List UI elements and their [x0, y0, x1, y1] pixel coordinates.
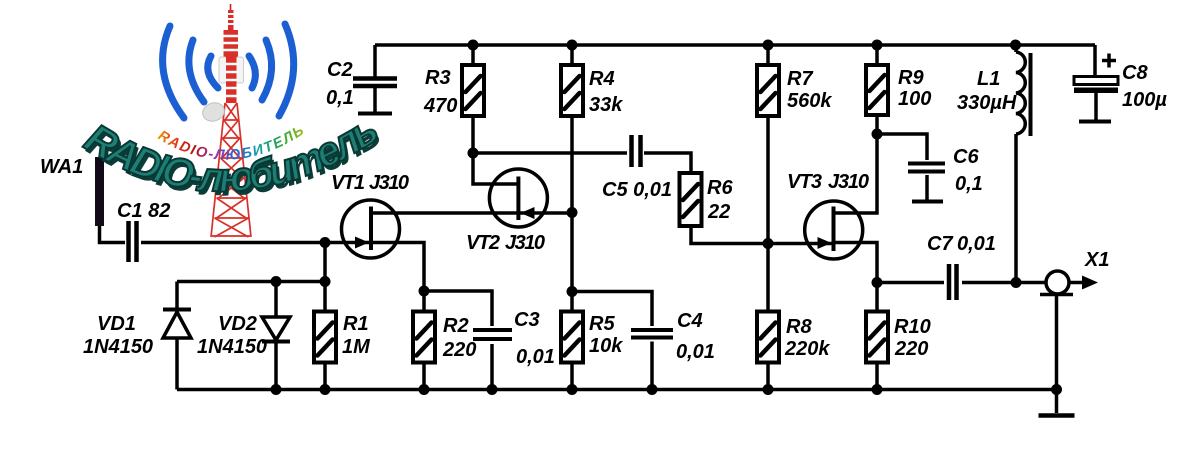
- svg-text:220: 220: [894, 338, 928, 360]
- svg-text:0,01: 0,01: [516, 346, 555, 368]
- svg-text:1N4150: 1N4150: [197, 336, 267, 358]
- svg-text:L1: L1: [977, 68, 1000, 90]
- wire R6 bottom to VT3 gate line: [691, 226, 833, 244]
- svg-text:R3: R3: [425, 67, 451, 89]
- svg-text:C3: C3: [514, 309, 540, 331]
- svg-text:VT2: VT2: [466, 232, 500, 254]
- svg-text:VT3: VT3: [787, 171, 822, 193]
- wire L1 bottom lead: [1014, 134, 1018, 283]
- wire C6 bottom lead: [925, 175, 929, 200]
- resistor R10: [866, 312, 888, 363]
- junction VD2 bottom rail: [271, 384, 282, 395]
- svg-text:0,01: 0,01: [957, 233, 996, 255]
- junction VD2 top: [271, 276, 282, 287]
- svg-text:22: 22: [707, 201, 730, 223]
- resistor R8: [757, 312, 779, 363]
- junction R10 bottom rail: [872, 384, 883, 395]
- junction C4 bottom rail: [647, 384, 658, 395]
- svg-text:R8: R8: [786, 316, 812, 338]
- wire R9 bottom to node: [875, 115, 879, 134]
- svg-text:220k: 220k: [784, 338, 830, 360]
- antenna WA1: [95, 157, 104, 226]
- svg-text:R10: R10: [894, 316, 931, 338]
- junction node R4/R5/C4: [567, 286, 578, 297]
- wire X1 arrow line: [1070, 281, 1087, 285]
- transistor VT1: [342, 200, 400, 258]
- wire R2 leads: [422, 291, 426, 390]
- svg-text:470: 470: [423, 95, 457, 117]
- wire R3 bottom lead to node: [471, 116, 475, 153]
- wire top supply rail: [375, 43, 1095, 47]
- wire VT3 source to node: [833, 243, 877, 283]
- svg-text:R9: R9: [898, 67, 924, 89]
- wire R3 top lead: [471, 45, 475, 65]
- junction node C1/VT1 gate: [320, 237, 331, 248]
- ground chassis: [1039, 413, 1075, 418]
- wire antenna to C1: [100, 224, 126, 243]
- junction C3 bottom rail: [487, 384, 498, 395]
- svg-text:VD1: VD1: [97, 313, 136, 335]
- svg-text:C2: C2: [327, 59, 353, 81]
- svg-text:100: 100: [898, 88, 931, 110]
- svg-text:R5: R5: [589, 313, 615, 335]
- svg-text:J310: J310: [369, 172, 409, 194]
- svg-text:R6: R6: [707, 177, 733, 199]
- wire VD1 vertical: [175, 282, 179, 390]
- wire C2 leads: [373, 45, 377, 112]
- wire C3 bottom lead: [490, 344, 494, 390]
- wire node R9 down to VT3 drain: [833, 134, 877, 213]
- svg-text:1M: 1M: [342, 336, 371, 358]
- wire VT1 source to R2 node: [371, 243, 424, 292]
- wire C4 bottom lead: [650, 342, 654, 390]
- transistor VT3: [805, 201, 863, 259]
- svg-text:R2: R2: [443, 315, 469, 337]
- capacitor C5: [632, 135, 641, 167]
- svg-text:100µ: 100µ: [1122, 89, 1167, 111]
- wire C5 right to R6: [644, 153, 691, 173]
- junction R4 top rail: [567, 40, 578, 51]
- junction node R6/R7/VT3 gate: [763, 238, 774, 249]
- resistor R9: [866, 65, 888, 115]
- svg-text:J310: J310: [828, 171, 869, 193]
- junction L1 bottom to output line: [1011, 277, 1022, 288]
- wire R9 top lead: [875, 45, 879, 65]
- junction R9 top rail: [872, 40, 883, 51]
- svg-text:10k: 10k: [589, 335, 623, 357]
- junction node VT1 source/R2/C3: [419, 286, 430, 297]
- capacitor C8 electrolytic: [1074, 54, 1118, 122]
- wire node to C5 left: [473, 151, 627, 155]
- svg-text:0,01: 0,01: [676, 341, 715, 363]
- capacitor C7: [949, 264, 957, 300]
- wire R2 node to C3: [424, 291, 492, 326]
- junction node R9/C6/VT3 drain: [872, 129, 883, 140]
- svg-text:330µH: 330µH: [957, 92, 1017, 114]
- junction R1 bottom rail: [320, 384, 331, 395]
- svg-text:33k: 33k: [589, 94, 623, 116]
- wire node R9 to C6: [877, 134, 927, 160]
- svg-text:0,1: 0,1: [326, 87, 354, 109]
- capacitor C6: [908, 164, 945, 202]
- junction node VT3 source/R10/C7: [872, 277, 883, 288]
- wire gate node down: [323, 243, 327, 282]
- resistor R6: [680, 173, 702, 226]
- wire R4 top lead: [570, 45, 574, 65]
- junction node R3/VT2 drain/C5: [468, 148, 479, 159]
- wire diode top rail: [177, 280, 325, 284]
- junction R3 top rail: [468, 40, 479, 51]
- svg-text:WA1: WA1: [40, 156, 83, 178]
- wire X1 down to ground rail: [1055, 296, 1059, 413]
- junction R8 bottom rail: [763, 384, 774, 395]
- wire R1 leads: [323, 282, 327, 390]
- transistor VT2: [489, 169, 547, 227]
- svg-text:0,1: 0,1: [955, 173, 983, 195]
- capacitor C2: [353, 79, 397, 114]
- wire R10 leads: [875, 283, 879, 390]
- junction node R4/VT2 gate: [567, 207, 578, 218]
- svg-text:R4: R4: [589, 68, 615, 90]
- diode VD2: [262, 317, 290, 342]
- wire VT1 drain to VT2 gate line: [371, 211, 572, 215]
- junction R1 top: [320, 276, 331, 287]
- junction R7 top rail: [763, 40, 774, 51]
- diode VD1: [163, 310, 191, 339]
- svg-text:R7: R7: [787, 68, 813, 90]
- resistor R1: [314, 312, 336, 363]
- wire R5 node to C4: [572, 292, 652, 327]
- wire ground bottom rail: [177, 388, 1057, 392]
- wire C7 to X1: [962, 281, 1046, 285]
- svg-text:VD2: VD2: [218, 313, 257, 335]
- resistor R7: [757, 65, 779, 116]
- wire R4 bottom to gate node and down to R5 node: [570, 116, 574, 292]
- resistor R3: [462, 65, 484, 116]
- wire R8 bottom lead: [766, 363, 770, 390]
- junction L1 top rail: [1010, 40, 1021, 51]
- inductor L1: [1016, 45, 1031, 136]
- junction R5 bottom rail: [567, 384, 578, 395]
- wire C1 to VT1 gate: [141, 241, 371, 245]
- svg-text:C8: C8: [1122, 62, 1148, 84]
- wire VT3 source node to C7: [877, 281, 944, 285]
- capacitor C3: [473, 330, 512, 339]
- svg-text:J310: J310: [505, 232, 545, 254]
- wire R7 top lead: [766, 45, 770, 65]
- svg-text:560k: 560k: [787, 90, 832, 112]
- wire VD2 vertical: [274, 282, 278, 390]
- svg-text:C6: C6: [953, 146, 979, 168]
- svg-text:X1: X1: [1084, 249, 1109, 271]
- logo blue waves: [163, 24, 294, 118]
- svg-text:C1 82: C1 82: [117, 200, 170, 222]
- logo radio tower: [200, 4, 251, 237]
- svg-text:C4: C4: [677, 310, 703, 332]
- capacitor C4: [631, 330, 673, 338]
- svg-text:220: 220: [442, 339, 476, 361]
- svg-text:C7: C7: [927, 233, 953, 255]
- resistor R4: [561, 65, 583, 116]
- svg-text:R1: R1: [343, 313, 369, 335]
- svg-text:1N4150: 1N4150: [83, 336, 153, 358]
- junction R2 bottom rail: [419, 384, 430, 395]
- resistor R2: [413, 312, 435, 363]
- resistor R5: [561, 312, 583, 363]
- svg-text:C5 0,01: C5 0,01: [602, 179, 672, 201]
- wire C8 top lead: [1095, 45, 1096, 120]
- wire R5 leads: [570, 292, 574, 390]
- capacitor C1: [129, 221, 137, 262]
- connector X1: [1040, 271, 1073, 295]
- wire R7 bottom through gate node to R8: [766, 116, 770, 312]
- junction X1 ground rail: [1051, 384, 1062, 395]
- wire node R3/C5 to VT2 drain: [473, 153, 518, 184]
